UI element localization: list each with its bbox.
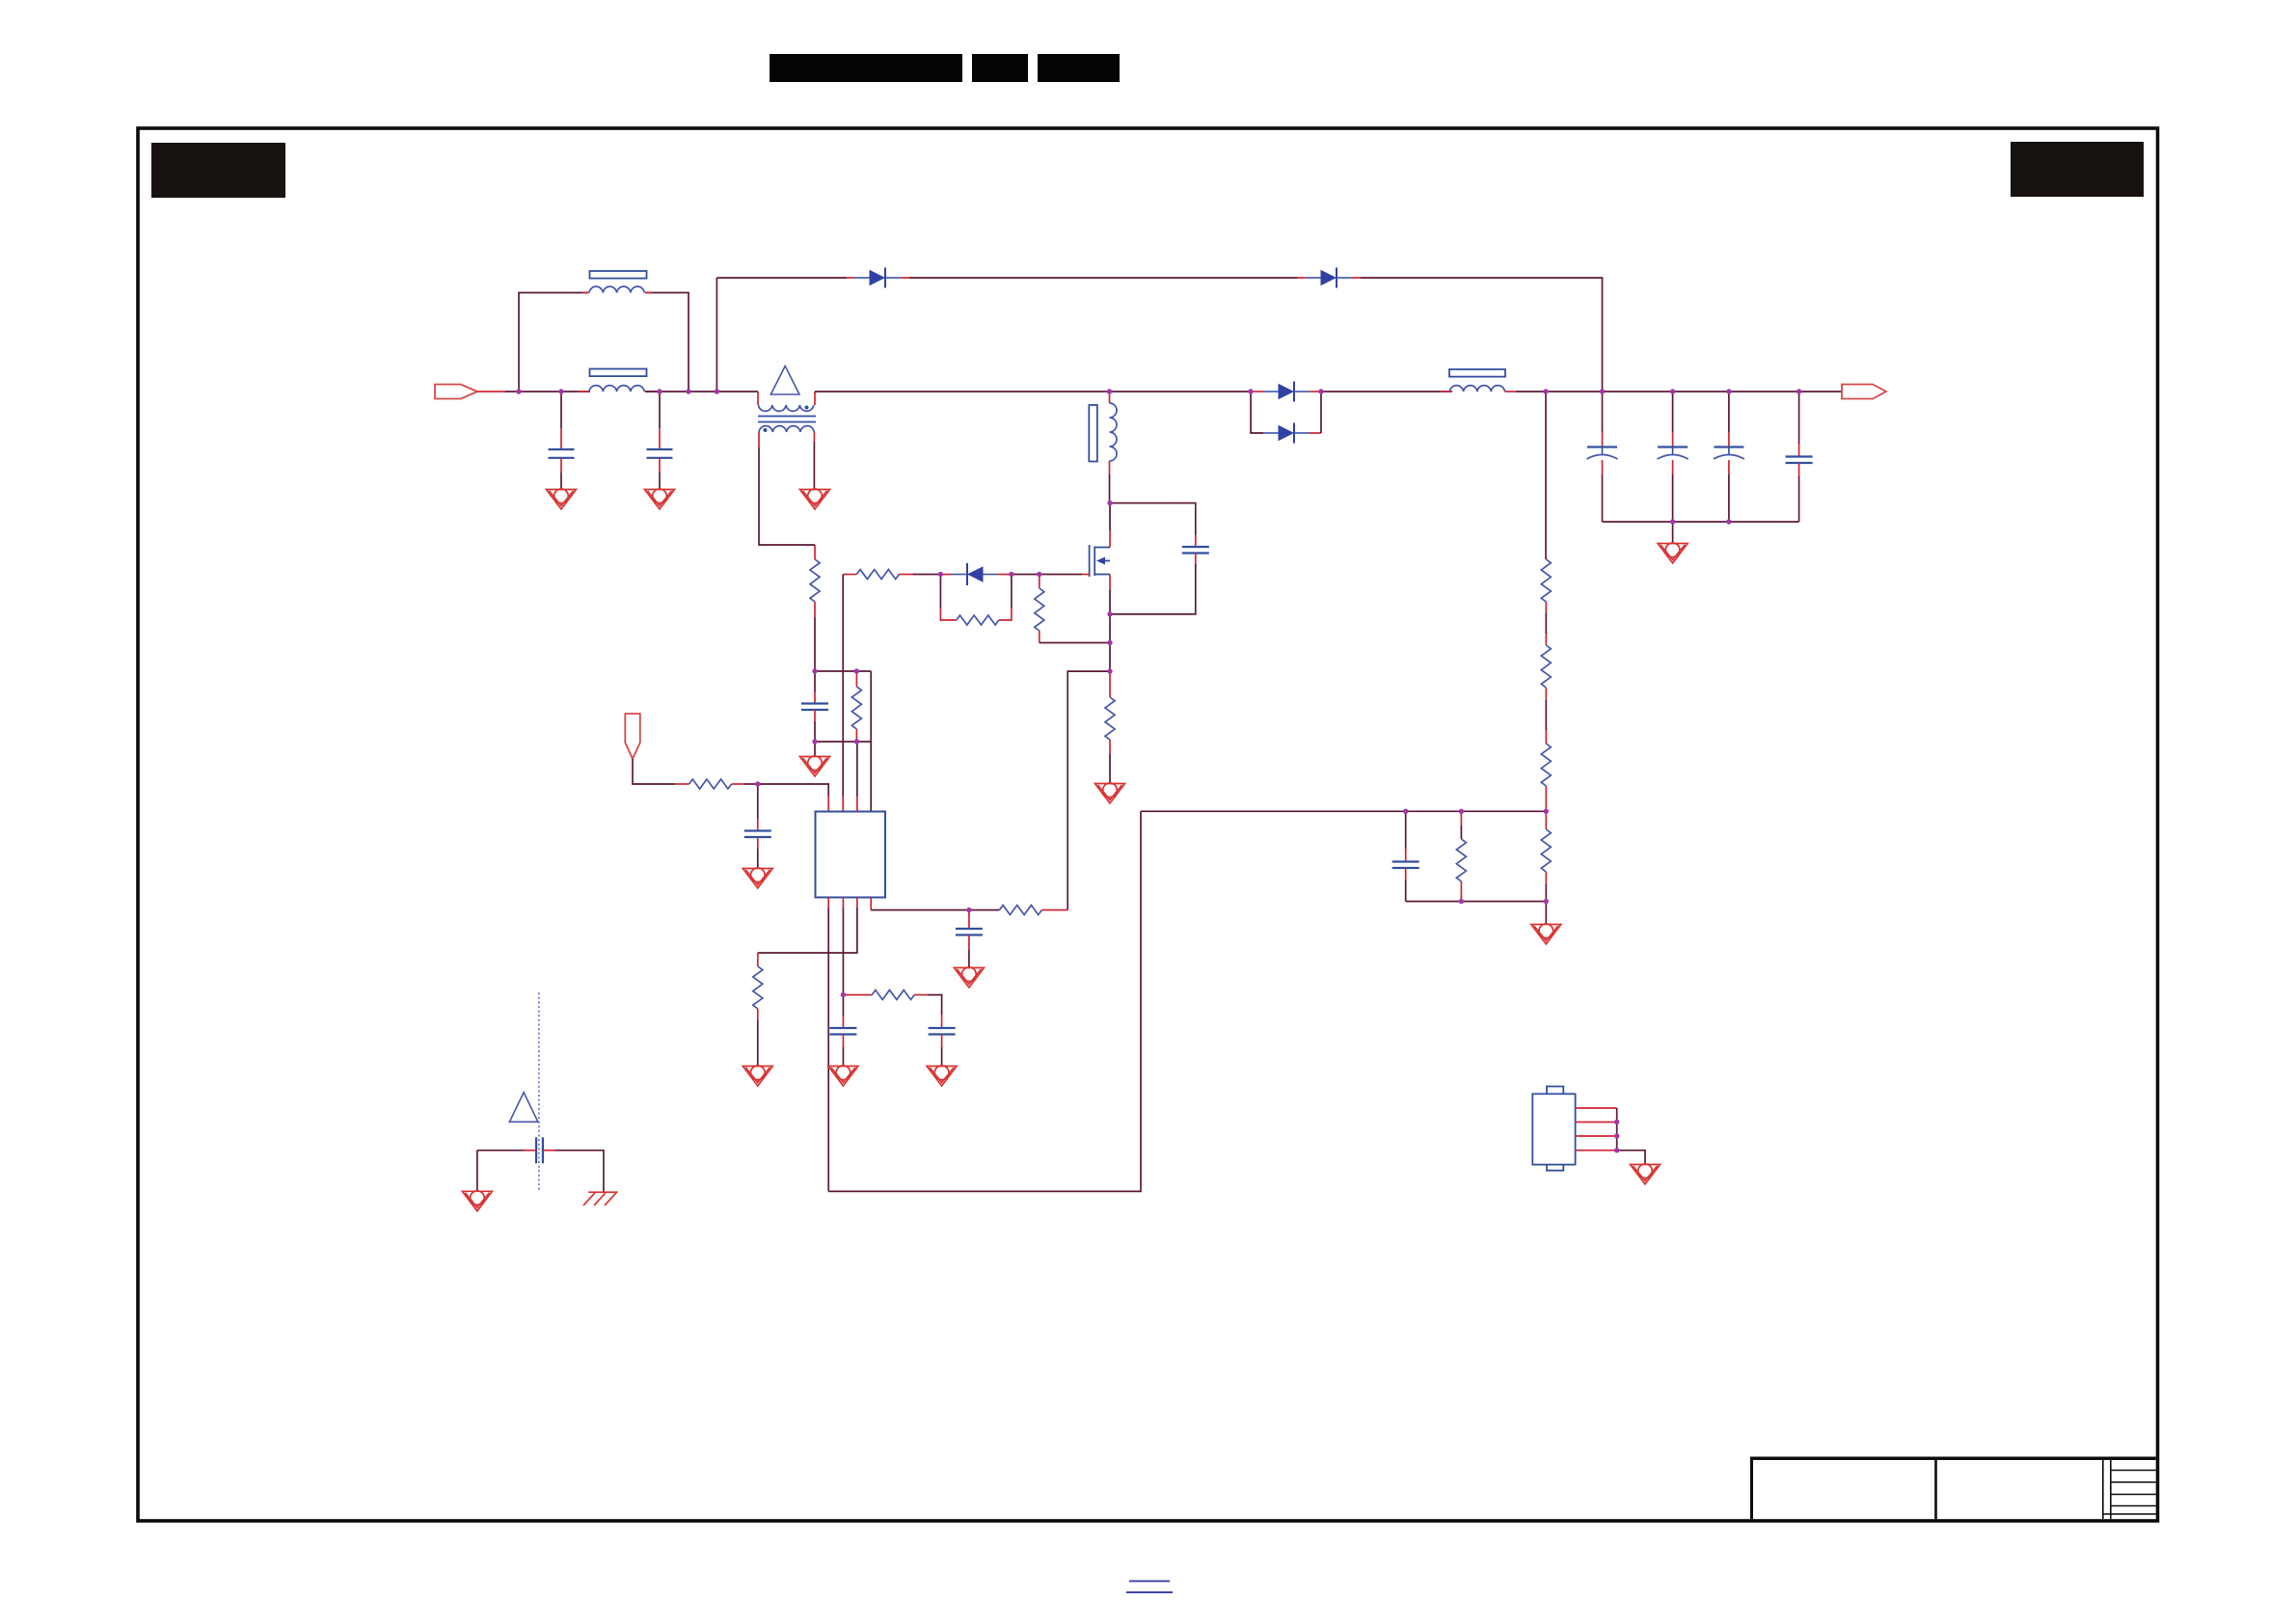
- wire snubber loop bottom: [1110, 564, 1196, 614]
- wire main AC line left: [477, 391, 505, 392]
- wire IC pin6 (timing cap leg): [842, 898, 844, 995]
- resistor R11 (divider top): [1541, 392, 1551, 602]
- title block: [1752, 1458, 2157, 1519]
- transformer T1 core: [758, 417, 816, 422]
- capacitor C5 (aux filter): [801, 671, 828, 742]
- wire D pair to L3: [1321, 391, 1452, 392]
- resistor R5 (current sense): [1105, 671, 1115, 783]
- wire IC pin8 (sense row): [871, 898, 999, 910]
- capacitor C9 (sense filter): [956, 910, 983, 967]
- node A main line junctions: [516, 389, 1801, 393]
- wire aux pin riser: [870, 671, 872, 812]
- wire R1 to node row: [814, 602, 816, 671]
- wire divider link 1: [1545, 602, 1547, 645]
- transistor Q1 (MOSFET): [1090, 545, 1110, 577]
- wire source node to IC sense pin: [1067, 671, 1110, 910]
- resistor R4 (gate pulldown): [1035, 575, 1110, 643]
- ground G9: [927, 1066, 957, 1086]
- wire gate lead red: [1082, 574, 1090, 576]
- wire Q1 drain: [1109, 503, 1111, 548]
- inductor L3 (output filter): [1441, 369, 1516, 392]
- wire feedback row: [1141, 810, 1546, 812]
- resistor R1 (aux supply): [810, 559, 820, 602]
- wire gate-row corner down to IC: [842, 575, 844, 812]
- wire P2 to R7: [633, 759, 675, 784]
- transformer T1 secondary winding: [759, 426, 814, 432]
- op-amp U1 (PWM controller IC): [816, 742, 886, 898]
- ground G2: [645, 489, 675, 509]
- redaction bar 3 (top header): [1038, 54, 1120, 82]
- wire bus to ground: [1672, 522, 1674, 543]
- capacitor C7 (timing): [829, 995, 856, 1066]
- ground G6 (sense): [1095, 783, 1125, 803]
- wire VCC row into IC pin: [758, 784, 828, 812]
- capacitor C10 (feedback): [1392, 811, 1419, 901]
- node C aux/IC junctions: [755, 668, 972, 997]
- wire T1 secondary right to ground: [813, 432, 815, 442]
- diode D1 (top rail): [847, 268, 909, 288]
- resistor R8 (RT): [843, 990, 941, 1015]
- capacitor C8: [929, 1015, 956, 1066]
- ground G4: [743, 868, 772, 888]
- ground G1: [547, 489, 577, 509]
- wire top boost rail: [716, 278, 1602, 392]
- connector P2 (start supply, pointing down): [625, 714, 640, 759]
- wire T1 secondary left down: [759, 432, 815, 559]
- wire J1 pin bus: [1617, 1108, 1645, 1164]
- capacitor C6 (VCC filter): [744, 784, 771, 868]
- ground G8: [743, 1066, 772, 1086]
- ground G14: [1631, 1164, 1661, 1184]
- redaction bar 2 (top header): [972, 54, 1028, 82]
- wire aux node to ground: [814, 742, 816, 756]
- redaction box top-right (sheet number): [2011, 142, 2144, 197]
- connector J1 (bottom right): [1532, 1087, 1575, 1171]
- redaction bar 1 (top header): [770, 54, 962, 82]
- diode D5 (output rectifier, parallel branch): [1251, 392, 1321, 444]
- isolation barrier dashed line: [538, 992, 540, 1192]
- redaction box top-left (sheet title): [151, 143, 285, 198]
- chassis ground symbol: [583, 1192, 618, 1205]
- inductor L1A (choke upper winding): [582, 271, 653, 293]
- ground G11: [1531, 924, 1561, 944]
- ground G10: [954, 967, 984, 988]
- resistor R2 (gate series): [843, 570, 940, 580]
- capacitor C11 (output, electrolytic): [1587, 392, 1618, 522]
- resistor R13 (divider bottom): [1541, 744, 1551, 811]
- capacitor C15 (Y-cap, vertical plates): [536, 1137, 543, 1163]
- wire feedback return loop: [828, 811, 1141, 1191]
- resistor R12 (divider middle): [1541, 645, 1551, 688]
- resistor R9: [753, 953, 763, 1066]
- wire Y-cap left leg: [477, 1150, 536, 1191]
- wire EMI bypass loop: [519, 293, 689, 392]
- node B switch area junctions: [938, 501, 1113, 674]
- resistor R14 (feedback): [1456, 811, 1466, 901]
- wire main line to transformer: [645, 391, 758, 392]
- capacitor C4 (snubber): [1182, 535, 1209, 564]
- footer equals mark: [1126, 1582, 1173, 1593]
- node row aux y769: [815, 741, 871, 743]
- wire RC bottom row: [1406, 902, 1547, 924]
- node D output/feedback junctions: [1403, 519, 1732, 1152]
- capacitor C13 (output, electrolytic): [1714, 392, 1744, 522]
- resistor R15 (feedback): [1541, 811, 1551, 901]
- J1 pin wires: [1576, 1108, 1617, 1150]
- output connector P3: [1842, 385, 1886, 399]
- wire main line T1 to output stage: [815, 391, 1251, 392]
- resistor R3 (parallel with D4): [940, 575, 1012, 626]
- inductor L2 core bar: [1089, 405, 1097, 462]
- diode D3 (output rectifier, in line): [1251, 382, 1321, 402]
- resistor R10 (sense filter): [999, 906, 1067, 915]
- diode D2 (top rail): [1297, 268, 1361, 288]
- wire top boost rail riser: [716, 278, 717, 392]
- ground G7: [828, 1066, 858, 1086]
- capacitor C12 (output, electrolytic): [1658, 392, 1688, 522]
- wire output line: [1516, 391, 1842, 392]
- ground G13: [462, 1191, 492, 1211]
- ground G5: [800, 756, 830, 776]
- ground G12: [1658, 543, 1688, 563]
- diode D4 (gate, pointing left): [940, 563, 1012, 585]
- ground G3 (under T1): [800, 489, 830, 509]
- safety triangle marker above T1: [770, 366, 799, 395]
- resistor R7 (startup): [675, 779, 758, 789]
- node row aux y696: [815, 670, 871, 672]
- safety triangle marker (Y-cap): [509, 1093, 538, 1123]
- transformer T1 primary winding: [758, 392, 815, 411]
- capacitor C2 (X-cap to ground): [647, 392, 673, 489]
- wire Y-cap right leg: [543, 1150, 604, 1192]
- wire snubber loop top: [1110, 503, 1196, 535]
- wire output cap bus: [1603, 521, 1799, 523]
- drawing frame border: [138, 128, 2158, 1521]
- wire divider link 2: [1545, 688, 1547, 744]
- wire gate line: [1012, 574, 1082, 576]
- wire IC pin5 stub: [827, 898, 829, 1192]
- capacitor C14 (output, film): [1786, 392, 1813, 522]
- resistor R6 (aux divider): [851, 671, 861, 742]
- capacitor C1 (X-cap to ground): [549, 392, 575, 489]
- inductor L1B (choke lower winding, in line): [579, 369, 657, 392]
- wire IC pin7 (osc leg): [758, 898, 857, 954]
- inductor L2 (switched winding, vertical): [1110, 392, 1118, 503]
- input connector P1: [435, 385, 477, 399]
- wire Q1 source down: [1109, 575, 1111, 672]
